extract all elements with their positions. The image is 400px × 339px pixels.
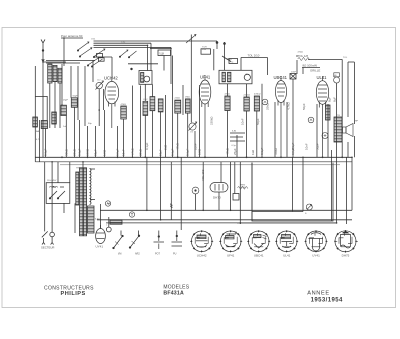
pickup PU box bbox=[229, 59, 238, 64]
contact arrows under bundle bbox=[119, 50, 136, 58]
heater resistor hatched bbox=[110, 220, 122, 224]
mains switch box bbox=[46, 183, 70, 204]
svg-text:25kΩ: 25kΩ bbox=[266, 102, 270, 110]
svg-text:HP: HP bbox=[355, 121, 359, 123]
svg-text:220kΩ: 220kΩ bbox=[244, 95, 251, 97]
resistor R11 zigzag bbox=[298, 57, 310, 60]
coil L1 hatched bbox=[48, 64, 52, 83]
svg-text:0,1μF: 0,1μF bbox=[260, 147, 264, 155]
svg-text:POT: POT bbox=[155, 253, 160, 256]
svg-text:10nF: 10nF bbox=[122, 149, 126, 156]
lamp circle M bbox=[105, 201, 110, 206]
phase circle with arrow bbox=[306, 204, 312, 210]
svg-text:2kΩ: 2kΩ bbox=[163, 144, 167, 150]
svg-text:UF41: UF41 bbox=[227, 254, 235, 258]
svg-text:47kΩ: 47kΩ bbox=[176, 142, 180, 150]
svg-text:UBC41: UBC41 bbox=[274, 75, 288, 80]
svg-text:6,3V: 6,3V bbox=[95, 219, 100, 221]
main bus wire second bbox=[35, 161, 352, 163]
svg-text:TON: TON bbox=[241, 187, 246, 189]
svg-text:PU: PU bbox=[173, 253, 177, 256]
IF transformer T1 box bbox=[128, 43, 158, 84]
power transformer TR1 bbox=[76, 162, 95, 236]
svg-text:22kΩ: 22kΩ bbox=[175, 98, 181, 100]
trimmer arrow T1 bbox=[186, 34, 196, 43]
tube UF41 bbox=[199, 75, 211, 157]
tuning cap C2 circle bbox=[96, 81, 104, 90]
band switch S1 arrows bbox=[77, 42, 105, 67]
svg-text:UCH42: UCH42 bbox=[197, 254, 207, 258]
note Pour antenne underline bbox=[61, 37, 83, 39]
resistor R7 hatched bbox=[185, 99, 190, 113]
coupling cap box bbox=[290, 74, 296, 80]
capacitor C4 hatched bbox=[52, 112, 57, 124]
left wires under coils bbox=[35, 54, 104, 162]
cathode circle bbox=[322, 133, 328, 139]
pickup circle bbox=[192, 187, 199, 194]
small comp box bbox=[233, 194, 239, 201]
svg-text:0,1μ: 0,1μ bbox=[232, 145, 237, 147]
svg-text:1MΩ: 1MΩ bbox=[185, 96, 190, 98]
antenna bbox=[41, 40, 45, 63]
svg-text:1nF: 1nF bbox=[63, 126, 67, 128]
wire to UL41 anode bbox=[297, 55, 342, 157]
svg-text:25kΩ: 25kΩ bbox=[73, 148, 77, 156]
svg-text:10nF: 10nF bbox=[241, 118, 245, 125]
svg-text:1kΩ: 1kΩ bbox=[251, 149, 255, 155]
left column wires bbox=[45, 162, 75, 233]
svg-text:UF41: UF41 bbox=[200, 75, 211, 80]
resistor R2 hatched bbox=[71, 98, 77, 108]
svg-text:470kΩ: 470kΩ bbox=[254, 94, 261, 96]
wires UL41 area bbox=[317, 62, 354, 223]
svg-text:I/M: I/M bbox=[118, 253, 121, 256]
svg-text:GRILLE: GRILLE bbox=[310, 69, 320, 73]
resistor R3 hatched bbox=[121, 106, 127, 119]
socket UY41 bbox=[305, 230, 328, 252]
svg-text:PHILIPS: PHILIPS bbox=[61, 291, 86, 297]
socket UCH42 bbox=[190, 230, 213, 252]
value box TC/R 2-80 bbox=[158, 48, 171, 84]
svg-text:Pour antenne 60: Pour antenne 60 bbox=[61, 34, 83, 38]
svg-text:CO: CO bbox=[97, 80, 101, 82]
svg-text:0,1μF: 0,1μF bbox=[44, 148, 48, 156]
svg-text:50pF: 50pF bbox=[94, 149, 98, 156]
socket UF41 bbox=[219, 230, 242, 252]
resistor R12 zigzag bbox=[238, 186, 248, 189]
wires mid verticals bbox=[145, 35, 199, 220]
feedback loop outer bbox=[252, 163, 333, 221]
resistor R8 hatched bbox=[225, 96, 230, 111]
mid-bottom vertical wires bbox=[101, 157, 241, 235]
output transformer hatched bbox=[326, 105, 343, 142]
resistor R10 hatched bbox=[254, 96, 259, 111]
switch K2 bbox=[129, 235, 140, 248]
svg-text:DH75: DH75 bbox=[342, 254, 350, 258]
svg-text:DH70: DH70 bbox=[213, 196, 221, 200]
dial lamp DH70 bbox=[210, 183, 228, 193]
svg-text:0,1μF: 0,1μF bbox=[186, 148, 190, 156]
socket DH75 bbox=[335, 230, 358, 253]
svg-text:OSC: OSC bbox=[143, 99, 148, 101]
grid stopper circle bbox=[308, 117, 314, 123]
lamp circle T bbox=[129, 212, 134, 217]
coil L2 hatched bbox=[53, 65, 57, 81]
top wire bundle bbox=[94, 41, 218, 48]
SB circle bbox=[334, 73, 340, 83]
svg-text:AR2: AR2 bbox=[135, 253, 140, 256]
svg-text:P.U.: P.U. bbox=[230, 61, 234, 63]
svg-text:8μF: 8μF bbox=[328, 97, 332, 102]
small circle near UY41 bbox=[106, 227, 111, 232]
tube UL41 bbox=[316, 76, 328, 157]
svg-text:47kΩ: 47kΩ bbox=[225, 94, 231, 96]
value box 2 bbox=[201, 49, 211, 54]
svg-text:4,7kΩ: 4,7kΩ bbox=[287, 102, 291, 110]
svg-text:47kΩ: 47kΩ bbox=[226, 147, 230, 155]
socket UBC41 bbox=[247, 230, 270, 252]
svg-text:0,5μF: 0,5μF bbox=[116, 148, 120, 156]
svg-text:1953/1954: 1953/1954 bbox=[311, 297, 343, 303]
svg-text:UY41: UY41 bbox=[96, 245, 104, 249]
svg-text:4kΩ: 4kΩ bbox=[226, 57, 232, 61]
socket interior details bbox=[195, 233, 352, 247]
svg-text:50kΩ: 50kΩ bbox=[64, 148, 68, 156]
capacitor C5 hatched bbox=[33, 117, 38, 127]
speaker LS bbox=[343, 124, 354, 137]
wires between UF41 and UBC41 bbox=[228, 84, 263, 158]
svg-text:50pF: 50pF bbox=[159, 149, 163, 156]
svg-text:TR: TR bbox=[337, 115, 340, 117]
svg-text:TOL 1/8: TOL 1/8 bbox=[298, 54, 309, 58]
svg-text:TOL 2/10: TOL 2/10 bbox=[248, 54, 260, 58]
svg-text:470Ω: 470Ω bbox=[121, 104, 127, 106]
svg-text:50μF: 50μF bbox=[256, 118, 260, 125]
svg-text:0,1μF: 0,1μF bbox=[78, 148, 82, 156]
svg-text:UL41: UL41 bbox=[283, 254, 291, 258]
svg-text:1MΩ: 1MΩ bbox=[198, 148, 202, 155]
tuning cap C3 circle bbox=[189, 122, 197, 131]
mains fuse circle bbox=[50, 232, 55, 237]
svg-text:1MΩ: 1MΩ bbox=[103, 149, 107, 156]
svg-text:0,1μF: 0,1μF bbox=[291, 142, 295, 150]
svg-text:0,1μF: 0,1μF bbox=[145, 142, 149, 150]
svg-text:220kΩ: 220kΩ bbox=[210, 116, 214, 125]
coil L3 hatched bbox=[58, 68, 62, 83]
svg-text:BF431A: BF431A bbox=[163, 291, 184, 297]
tube socket diagrams bbox=[190, 230, 358, 258]
resistor R9 hatched bbox=[244, 97, 249, 111]
wire antenna drop bbox=[63, 38, 65, 66]
extra left verticals bbox=[35, 57, 112, 128]
svg-text:10nF: 10nF bbox=[291, 71, 297, 73]
mains plugs bbox=[42, 237, 54, 245]
main bus wire top bbox=[35, 156, 352, 158]
bottom caption CONSTRUCTEURS bbox=[44, 285, 343, 304]
svg-text:25kΩ: 25kΩ bbox=[139, 148, 143, 156]
svg-text:10nF: 10nF bbox=[304, 143, 308, 150]
svg-text:UY41: UY41 bbox=[312, 254, 320, 258]
IF transformer T2 box bbox=[214, 49, 252, 84]
svg-text:220Ω: 220Ω bbox=[86, 148, 90, 156]
svg-text:SECTEUR: SECTEUR bbox=[41, 245, 54, 249]
wire stubs with dots top bbox=[216, 41, 231, 62]
svg-text:25μF: 25μF bbox=[233, 148, 237, 155]
socket UL41 bbox=[275, 230, 298, 252]
resistor R4 hatched bbox=[150, 97, 155, 111]
tube UCH42 bbox=[105, 77, 119, 128]
socket labels bbox=[197, 254, 350, 258]
resistor R6 hatched bbox=[175, 100, 181, 113]
svg-text:47kΩ: 47kΩ bbox=[274, 147, 278, 155]
resistor R1 hatched bbox=[61, 105, 66, 115]
mains switch arm bbox=[42, 231, 48, 237]
svg-text:25pF: 25pF bbox=[63, 100, 69, 102]
svg-text:4,7kΩ: 4,7kΩ bbox=[130, 148, 134, 156]
tube UY41 bbox=[96, 225, 106, 244]
junction dots on bus bbox=[42, 37, 353, 224]
svg-text:CV: CV bbox=[190, 132, 194, 134]
switch K4 bbox=[172, 235, 183, 246]
capacitor C1 hatched bbox=[41, 121, 47, 129]
svg-text:0,1μF: 0,1μF bbox=[171, 148, 175, 156]
feedback loop inner wires bbox=[237, 150, 352, 224]
svg-text:VOL 150: VOL 150 bbox=[201, 169, 205, 181]
resistor R5 hatched bbox=[158, 99, 163, 112]
wires left-mid verticals bbox=[46, 61, 141, 158]
socket pin dots bbox=[191, 230, 357, 252]
svg-text:110-245V: 110-245V bbox=[47, 180, 57, 182]
svg-text:ANNEE: ANNEE bbox=[307, 290, 329, 296]
svg-text:50pF: 50pF bbox=[73, 96, 79, 98]
svg-text:8μF: 8μF bbox=[333, 97, 337, 102]
wires UBC41 area bbox=[275, 60, 320, 157]
svg-text:50pF: 50pF bbox=[302, 103, 306, 110]
svg-text:UL41: UL41 bbox=[317, 75, 328, 80]
svg-text:47kΩ: 47kΩ bbox=[298, 52, 304, 54]
svg-text:UBC41: UBC41 bbox=[254, 254, 264, 258]
switch K1 bbox=[113, 235, 124, 249]
heater wires horizontals bbox=[97, 210, 352, 223]
svg-text:UCH42: UCH42 bbox=[104, 76, 118, 81]
diode circle bbox=[262, 99, 268, 105]
switch row contacts bbox=[113, 235, 182, 256]
value box TOL 2-10 wire bbox=[241, 58, 268, 76]
switch K3 bbox=[154, 236, 165, 249]
svg-text:50pF: 50pF bbox=[315, 143, 319, 150]
resistor R13 zigzag vertical bbox=[170, 204, 173, 208]
tiny value labels scattered bbox=[36, 34, 359, 227]
switch row labels bbox=[118, 253, 177, 256]
tube UBC41 bbox=[275, 76, 286, 157]
osc coil L4 hatched bbox=[143, 101, 148, 115]
svg-text:8Ω 100mW: 8Ω 100mW bbox=[303, 63, 318, 67]
